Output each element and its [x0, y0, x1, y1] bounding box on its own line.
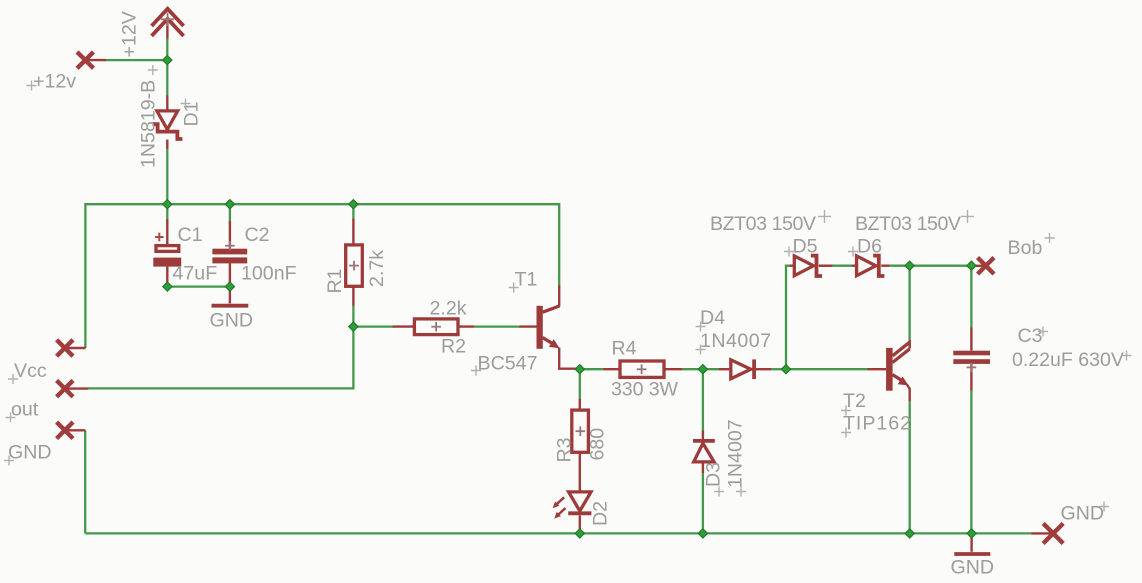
cross label Bob	[1045, 233, 1055, 243]
pad X GND right	[1032, 523, 1064, 543]
wire collector riser	[908, 266, 910, 341]
wire D3 anode to gnd bus	[702, 473, 704, 534]
junction gnd bus C3	[967, 529, 976, 538]
svg-text:0.22uF 630V: 0.22uF 630V	[1012, 349, 1124, 371]
svg-text:D6: D6	[857, 236, 882, 258]
cross label TIP162	[841, 428, 851, 438]
LED D2	[553, 492, 592, 529]
transistor T1 BC547	[520, 285, 579, 368]
resistor R1 2.7k	[346, 219, 363, 306]
svg-text:100nF: 100nF	[241, 263, 297, 285]
wire Bob node stub	[971, 265, 977, 267]
transistor T2 TIP162	[868, 340, 910, 401]
resistor R3 680	[572, 399, 589, 491]
cross label D3	[714, 487, 724, 497]
junction gnd bus D3	[698, 529, 707, 538]
resistor R4 330 3W	[604, 361, 683, 377]
svg-text:TIP162: TIP162	[843, 413, 911, 435]
wire out net	[88, 327, 353, 389]
svg-text:R1: R1	[324, 268, 346, 293]
cross label T1	[509, 283, 519, 293]
pad X GND left	[57, 422, 86, 438]
cross label 1N5819-B	[148, 65, 158, 75]
cross label D1	[181, 99, 191, 109]
capacitor C1 47uF	[153, 219, 181, 285]
wire +12v pad to node	[105, 59, 167, 61]
resistor R2 2.2k	[393, 319, 475, 335]
svg-text:+12v: +12v	[33, 71, 76, 93]
capacitor C2 100nF	[212, 221, 247, 263]
cross label 630V	[1122, 351, 1132, 361]
junction D4 node	[698, 365, 707, 374]
svg-text:2.7k: 2.7k	[366, 250, 388, 287]
cross label D4	[696, 322, 706, 332]
wire R1 bottom to node	[352, 306, 354, 327]
junction bus R1	[349, 200, 358, 209]
wire bus to C2	[229, 204, 231, 221]
junction C2 bottom	[225, 282, 234, 291]
svg-text:1N5819-B: 1N5819-B	[138, 80, 160, 168]
svg-text:R2: R2	[441, 336, 466, 358]
svg-text:47uF: 47uF	[173, 263, 218, 285]
svg-text:C1: C1	[178, 224, 203, 246]
svg-text:R4: R4	[612, 338, 637, 360]
wire D4 cathode to base node	[771, 368, 786, 370]
svg-text:BZT03 150V: BZT03 150V	[855, 213, 961, 235]
capacitor C3 0.22uF	[953, 328, 990, 391]
junction C1 bottom	[163, 282, 172, 291]
svg-text:GND: GND	[8, 442, 52, 464]
svg-text:D5: D5	[793, 236, 818, 258]
diode D4 1N4007	[719, 359, 771, 379]
cross label GND right	[1099, 502, 1109, 512]
wire D6 cathode to collector node	[889, 265, 909, 267]
wire D2 cathode to gnd bus	[579, 529, 581, 534]
cross label BZT03 D6	[961, 210, 974, 223]
cross label BZT03 D5	[818, 210, 831, 223]
cross label out	[6, 413, 16, 423]
wire node to R3 top	[579, 369, 581, 399]
cross label D6	[848, 247, 858, 257]
cross label T2	[841, 406, 851, 416]
pad X out	[57, 380, 89, 396]
junction node +12v	[163, 56, 172, 65]
ground symbol GND bottom right	[954, 533, 990, 554]
junction base node	[781, 365, 790, 374]
junction gnd bus T2	[905, 529, 914, 538]
wire node to D1 anode	[166, 60, 168, 96]
wire T2 emitter down	[909, 401, 911, 534]
junction collector node	[905, 261, 914, 270]
junction gnd bus D2	[575, 529, 584, 538]
diode D3 1N4007	[693, 431, 715, 474]
junction Bob node	[967, 261, 976, 270]
wire C1 to C2 bottom link	[167, 285, 230, 287]
svg-text:GND: GND	[951, 557, 995, 579]
wire bus to C1	[166, 204, 168, 219]
wire R2 right to T1 base	[474, 325, 520, 327]
svg-text:D1: D1	[181, 101, 203, 126]
svg-text:BZT03 150V: BZT03 150V	[710, 213, 816, 235]
zener D5 BZT03	[790, 256, 833, 276]
wire bus to R1	[352, 204, 354, 218]
svg-text:2.2k: 2.2k	[430, 298, 467, 320]
junction emitter node	[575, 365, 584, 374]
svg-text:D4: D4	[700, 307, 725, 329]
wire base node to T2 base	[786, 368, 868, 370]
wire emitter node to R4	[580, 368, 604, 370]
svg-text:1N4007: 1N4007	[725, 419, 747, 488]
supply symbol +12V arrow	[152, 9, 184, 39]
cross label +12v	[27, 81, 37, 91]
cross label C3	[1038, 327, 1048, 337]
svg-text:330 3W: 330 3W	[611, 378, 679, 400]
svg-text:R3: R3	[554, 437, 576, 462]
diode D1 1N5819	[153, 96, 183, 150]
svg-text:Bob: Bob	[1008, 237, 1043, 259]
wire D5 cathode to D6 anode	[819, 265, 852, 267]
wire D1 cathode to bus	[166, 149, 168, 205]
wire zener riser	[786, 266, 790, 370]
pad X +12v	[77, 52, 106, 68]
wire R4 right to D4 node	[682, 368, 703, 370]
junction bus C1	[163, 200, 172, 209]
ground symbol GND under C2	[212, 263, 249, 305]
wire node to R2 left	[353, 325, 392, 327]
cross label D5	[784, 247, 794, 257]
junction bus C2	[225, 200, 234, 209]
svg-text:Vcc: Vcc	[14, 360, 47, 382]
junction R1 bottom node	[349, 322, 358, 331]
wire C3 riser	[970, 266, 972, 328]
svg-text:680: 680	[587, 428, 609, 461]
cross label BC547	[471, 366, 481, 376]
pad X Vcc	[57, 340, 86, 356]
cross label GND left	[4, 456, 14, 466]
svg-text:GND: GND	[1061, 503, 1105, 525]
wire D4 node to D4 anode	[703, 368, 719, 370]
wire collector node to Bob node	[910, 265, 972, 267]
wire supply arrow stem	[166, 39, 168, 61]
svg-text:1N4007: 1N4007	[700, 330, 771, 352]
svg-text:D3: D3	[703, 462, 725, 487]
cross label 1N4007 D4	[696, 345, 706, 355]
wire C3 bottom to gnd bus	[970, 390, 972, 533]
svg-text:BC547: BC547	[478, 353, 538, 375]
cross label Vcc	[8, 374, 18, 384]
svg-text:+12V: +12V	[119, 11, 141, 57]
svg-text:C2: C2	[245, 224, 270, 246]
svg-text:GND: GND	[210, 310, 254, 332]
wire top bus VCC net	[85, 204, 559, 348]
wire D4 node down to D3	[702, 369, 704, 431]
zener D6 BZT03	[852, 256, 889, 276]
wire bottom gnd bus	[85, 532, 1031, 534]
svg-text:D2: D2	[590, 501, 612, 526]
cross label 1N4007 D3	[736, 487, 746, 497]
pad X Bob	[976, 258, 994, 274]
svg-text:C3: C3	[1018, 325, 1043, 347]
wire gnd left vertical	[84, 430, 86, 533]
